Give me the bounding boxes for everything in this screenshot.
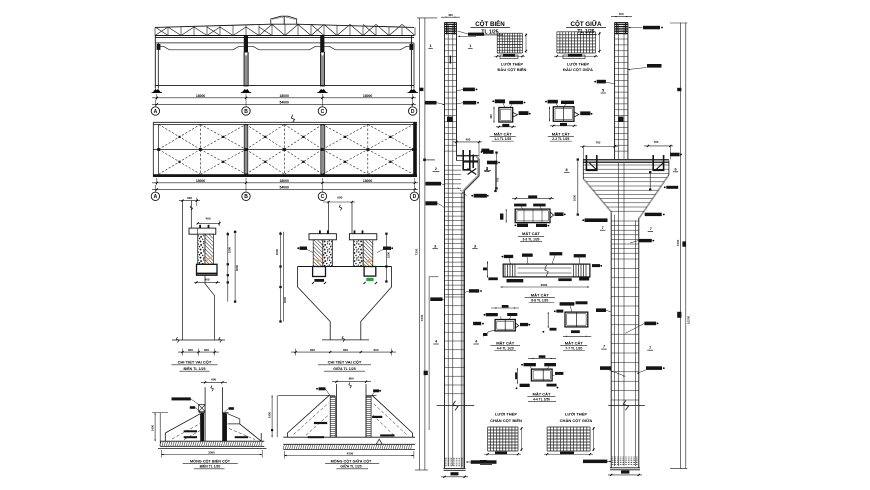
cot giua - column outline upper: [615, 23, 628, 161]
cot bien - left callout under corbel level: [426, 182, 445, 186]
svg-text:C: C: [321, 109, 325, 115]
svg-text:A: A: [154, 194, 158, 200]
mong cot bien - step rebars: [184, 430, 248, 438]
svg-text:7: 7: [601, 226, 603, 230]
mong cot giua - rebar label left top: [316, 387, 330, 396]
svg-text:400: 400: [205, 217, 210, 221]
mong cot bien - rebar label right: [225, 407, 234, 412]
cot bien - bottom dimension: [441, 472, 468, 478]
section 3-3 top dimension: [512, 195, 554, 199]
section 8-8 bottom dimension: [501, 283, 590, 287]
svg-text:1500: 1500: [228, 246, 232, 253]
svg-text:GIỮA TL 1/20: GIỮA TL 1/20: [340, 464, 361, 469]
mong cot bien - left dimension stack: [150, 413, 168, 447]
section 5 body: [531, 369, 552, 381]
mong cot bien - battered pier left slope: [165, 414, 200, 442]
section 1-1 label: [490, 131, 516, 141]
svg-text:MẶT CẮT: MẶT CẮT: [533, 391, 552, 396]
roof truss band of building elevation: [155, 24, 415, 35]
ground line of elevation: [155, 84, 414, 86]
cot giua - lower callout left2: [600, 366, 625, 377]
svg-text:MÓNG CỘT GIỮA CỘT: MÓNG CỘT GIỮA CỘT: [331, 458, 372, 463]
svg-text:MẶT CẮT: MẶT CẮT: [496, 340, 515, 345]
mong cot giua - anchor triangle: [376, 439, 382, 444]
section 8-8 left dimension: [483, 261, 498, 280]
elevation grid bubbles A B C D: [151, 100, 417, 116]
cot giua - right mid callouts: [625, 322, 658, 334]
plan mid grid line: [153, 148, 417, 150]
svg-text:2-2 TL 1/25: 2-2 TL 1/25: [552, 137, 569, 141]
cot giua - corbel anchor U bars right: [653, 155, 663, 170]
detail vai cot giua - left sub-column body: [313, 240, 332, 267]
section 5 bottom bars: [516, 384, 557, 389]
mesh luoi thep chan cot giua: [544, 427, 595, 455]
svg-text:700: 700: [654, 140, 659, 144]
svg-text:3: 3: [474, 244, 476, 248]
section 3-3 body: [515, 209, 550, 223]
plan column B: [244, 124, 248, 174]
svg-text:400: 400: [619, 12, 624, 16]
cot bien - right rebar callout 2: [457, 101, 479, 105]
section 3-3 leaders: [514, 204, 566, 227]
mong cot giua - battered pier left slope: [287, 395, 329, 437]
svg-text:600: 600: [187, 196, 192, 200]
mong cot bien - title: [183, 458, 238, 468]
svg-text:7: 7: [649, 346, 651, 350]
section 5 top dimension: [528, 355, 556, 359]
elevation dimension line 18000 x3: [152, 94, 416, 100]
mong cot bien - polystyrene filler symbol: [199, 405, 205, 412]
svg-text:CỘT BIÊN: CỘT BIÊN: [475, 20, 505, 28]
section 2-2 label: [548, 131, 574, 141]
svg-text:CHI TIẾT VAI CỘT: CHI TIẾT VAI CỘT: [328, 360, 362, 365]
label 7 right of section 7-7: [601, 345, 607, 349]
detail vai cot bien - seat dimension 400: [194, 278, 220, 284]
svg-text:D: D: [413, 194, 417, 200]
svg-text:CHÂN CỘT GIỮA: CHÂN CỘT GIỮA: [560, 418, 593, 423]
cot giua - top dimension: [611, 12, 632, 17]
section 1-1 bottom dimension: [496, 124, 516, 128]
svg-text:18000: 18000: [363, 94, 373, 98]
mong cot giua - left dimension stack: [267, 395, 277, 437]
eave beam: [155, 37, 414, 50]
svg-text:B: B: [244, 194, 248, 200]
detail vai cot giua - rebar callout left: [297, 247, 313, 253]
svg-text:ĐẦU CỘT BIÊN: ĐẦU CỘT BIÊN: [498, 67, 527, 72]
svg-text:600: 600: [373, 348, 378, 352]
section 5 left dimension: [515, 368, 518, 384]
tall column right level dimension lines: [670, 23, 691, 469]
mong cot giua - battered pier right slope: [372, 395, 412, 437]
svg-text:BIÊN TL 1/25: BIÊN TL 1/25: [184, 366, 206, 371]
cot giua - column head anchorage block: [615, 23, 628, 34]
section 7-7 top leaders: [554, 301, 588, 312]
detail vai cot bien - bottom break line: [172, 337, 225, 342]
section 4-4 leaders: [483, 313, 530, 336]
roof monitor: [271, 16, 297, 24]
svg-text:MẶT CẮT: MẶT CẮT: [494, 131, 513, 136]
section 3-3 left dimension: [500, 209, 507, 223]
detail vai cot giua - pedestal funnel outline: [298, 267, 392, 340]
svg-text:D: D: [411, 109, 415, 115]
mong cot giua - step rebars: [308, 416, 395, 438]
cot giua - right side callout 6arrow: [628, 64, 662, 70]
svg-text:LƯỚI THÉP: LƯỚI THÉP: [495, 412, 517, 417]
elevation overall dimension 54000: [152, 100, 416, 105]
label 8 left of corbel: [564, 168, 570, 172]
cot bien - corbel right dimension: [494, 161, 499, 192]
mesh luoi thep chan cot bien label: [490, 412, 522, 423]
mesh luoi thep dau cot bien: [494, 33, 527, 58]
section 7-7 body: [565, 312, 588, 327]
svg-text:1500: 1500: [386, 251, 390, 258]
cot bien - right rebar callout top: [457, 88, 478, 92]
svg-text:1-1 TL 1/25: 1-1 TL 1/25: [494, 137, 511, 141]
detail vai cot bien - hatched column body: [198, 234, 214, 264]
detail vai cot bien - bottom dimension 600 600: [178, 348, 219, 355]
cot bien - stirrup rungs lower: [445, 297, 465, 394]
svg-text:MẶT CẮT: MẶT CẮT: [522, 231, 541, 236]
cot bien - top dimension: [441, 13, 460, 18]
mong cot giua - socket rim lines: [278, 394, 376, 396]
cot bien - break mark: [437, 401, 475, 411]
cot giua - left mid callout: [596, 308, 611, 312]
svg-text:10200: 10200: [687, 315, 691, 324]
mong cot bien - top dimension 600: [201, 378, 227, 384]
cot giua - base mesh zone: [610, 457, 640, 470]
cot bien - base mesh leader: [466, 460, 497, 464]
detail vai cot bien - corbel top dimension 400: [197, 217, 221, 226]
svg-text:CHI TIẾT VAI CỘT: CHI TIẾT VAI CỘT: [178, 360, 212, 365]
detail vai cot bien - title: [172, 360, 218, 372]
cot bien - stirrup rungs mid dense: [445, 166, 465, 295]
section 2-2 left dimension: [549, 107, 550, 122]
svg-text:ĐẦU CỘT GIỮA: ĐẦU CỘT GIỮA: [563, 67, 593, 72]
svg-text:6: 6: [674, 167, 676, 171]
mong cot giua - column shaft with break: [336, 383, 366, 438]
svg-text:7-7 TL 1/20: 7-7 TL 1/20: [565, 347, 582, 351]
mong cot giua - rebar label right top: [371, 389, 381, 396]
cot giua - corbel anchor U bars left: [586, 155, 596, 170]
plan overall dimension 54000: [152, 186, 418, 191]
svg-text:8: 8: [565, 168, 567, 172]
svg-text:CỘT GIỮA: CỘT GIỮA: [571, 20, 602, 28]
svg-text:5: 5: [602, 89, 604, 93]
svg-text:600: 600: [204, 348, 209, 352]
svg-text:400: 400: [466, 138, 471, 142]
mong cot bien - bottom dimension: [161, 450, 262, 458]
section 8-8 right edge callout: [592, 264, 602, 267]
cot bien - mid leader callout left: [430, 297, 444, 301]
svg-text:18000: 18000: [196, 179, 206, 183]
cot bien - stirrup rungs upper: [445, 39, 457, 151]
detail vai cot giua - left dimension stack: [275, 232, 287, 323]
svg-text:600: 600: [211, 378, 216, 382]
cot giua - left vertical dimension: [572, 158, 579, 215]
svg-text:1: 1: [469, 44, 471, 48]
svg-text:3-3 TL 1/20: 3-3 TL 1/20: [523, 238, 540, 242]
cot giua - labels 7 lower: [647, 346, 653, 350]
left margin callout 2 with tie line: [480, 149, 498, 198]
svg-text:LƯỚI THÉP: LƯỚI THÉP: [565, 412, 587, 417]
cot bien - base mesh zone: [444, 458, 466, 470]
section 8-8 bottom leaders: [507, 278, 590, 283]
cot giua - left corbel dimension 700: [580, 141, 618, 160]
mong cot giua - base slab: [283, 437, 415, 449]
detail vai cot bien - corbel seat box: [197, 264, 218, 275]
detail vai cot bien - lower column profile: [205, 275, 215, 340]
cot bien - corbel anchor U bars: [458, 150, 479, 197]
cot bien - section mark 1-1: [428, 44, 472, 48]
cot bien - corbel gray profile: [457, 156, 480, 469]
mong cot giua - top dimension 800: [332, 377, 371, 383]
svg-text:MẶT CẮT: MẶT CẮT: [565, 340, 584, 345]
plan column C: [321, 124, 325, 174]
svg-text:1000: 1000: [572, 194, 576, 201]
svg-text:3000: 3000: [235, 264, 239, 271]
svg-text:54000: 54000: [279, 100, 289, 104]
section 2-2 leaders: [545, 100, 592, 117]
mesh luoi thep chan cot giua label: [560, 412, 593, 423]
cot giua - bottom dimension: [608, 470, 642, 476]
mong cot bien - base slab: [158, 441, 267, 448]
svg-text:B: B: [244, 109, 248, 115]
svg-text:7200: 7200: [676, 239, 680, 246]
detail vai cot giua - left stirrup box: [312, 267, 326, 285]
svg-text:CHÂN CỘT BIÊN: CHÂN CỘT BIÊN: [490, 418, 522, 423]
cot bien - corbel leader callouts: [433, 150, 500, 197]
elevation column B: [244, 36, 248, 87]
plan X bracing: [157, 124, 414, 174]
cot giua - right corbel: [640, 161, 669, 218]
mong cot bien - socket walls: [199, 413, 229, 442]
cot giua - right corbel callouts: [664, 153, 682, 189]
cot giua - lower callout: [630, 239, 654, 243]
cot giua - right corbel dimension 700: [644, 140, 673, 159]
mong cot bien - column shaft with break: [205, 386, 222, 442]
cot giua - corbel height dim bracket: [649, 171, 651, 191]
cot giua - head leader: [629, 26, 663, 30]
mong cot bien - battered pier right slope with step: [227, 414, 262, 442]
cot bien - mid leader callouts right: [465, 289, 484, 325]
cot bien - left callout lower: [426, 201, 445, 207]
tall column left level dimension lines: [415, 18, 438, 470]
svg-text:1500: 1500: [275, 248, 279, 255]
svg-text:7: 7: [603, 345, 605, 349]
mesh luoi thep chan cot bien: [484, 427, 523, 455]
section 8-8 body: [503, 264, 590, 277]
section 2-2 bottom dimension: [550, 123, 577, 127]
detail vai cot bien - top dimension 600: [179, 196, 200, 206]
detail vai cot giua - corbel top line: [298, 266, 392, 268]
svg-text:1400: 1400: [267, 411, 271, 418]
cot giua - stirrup rungs mid dense: [611, 221, 639, 253]
svg-text:2: 2: [435, 167, 437, 171]
detail vai cot giua - right dimension stack: [385, 233, 390, 283]
svg-text:600: 600: [343, 348, 348, 352]
svg-text:3000: 3000: [208, 451, 215, 455]
detail vai cot giua - title: [318, 360, 371, 372]
svg-text:600: 600: [310, 348, 315, 352]
section 4-4 label: [490, 340, 520, 350]
svg-text:7: 7: [650, 227, 652, 231]
svg-text:2: 2: [486, 166, 488, 170]
mesh 2 label: [563, 62, 593, 72]
cot giua - labels 7: [600, 226, 653, 232]
cot giua - splice mark: [618, 117, 623, 122]
svg-text:600: 600: [337, 195, 342, 199]
section 7-7 bottom dimension: [563, 330, 591, 337]
svg-text:4200: 4200: [347, 452, 354, 456]
svg-text:A: A: [154, 109, 158, 115]
cot giua - left corbel: [583, 159, 611, 211]
cot giua - lower callout right2: [637, 366, 665, 374]
cot giua - right callout with label 5: [594, 80, 614, 93]
cot bien - column head anchorage block: [445, 23, 457, 34]
column base symbols: [152, 89, 418, 93]
detail vai cot bien - column cap: [189, 225, 216, 234]
plan grid bubbles A B C D: [151, 185, 418, 201]
roof bracing plan outline: [153, 122, 417, 177]
section 1-1 left dimension: [489, 107, 495, 123]
plan dimension line 18000 x3: [152, 178, 418, 185]
cot giua - below corbel callout left: [582, 218, 607, 222]
svg-text:700: 700: [496, 177, 500, 182]
section 5 label: [527, 391, 556, 401]
svg-text:4-4 TL 1/20: 4-4 TL 1/20: [497, 347, 514, 351]
cot giua - lower column outline: [584, 176, 668, 468]
svg-text:4-4 TL 1/50: 4-4 TL 1/50: [533, 397, 550, 401]
cot giua - corbel band: [583, 159, 669, 162]
detail vai cot giua - left cap: [309, 230, 336, 239]
cot bien - mid labels 4: [433, 340, 479, 344]
mong cot bien - polystyrene label: [172, 397, 199, 404]
mong cot giua - bottom dimension: [284, 451, 414, 459]
section 2-2 body: [553, 107, 574, 122]
detail vai cot bien - upper column edge with break: [190, 201, 192, 229]
cot giua - break mark: [608, 400, 645, 410]
cot bien - level tick at corbel top: [423, 159, 435, 162]
detail vai cot bien - right dimension stack: [227, 231, 239, 303]
detail vai cot giua - rebar callout right: [377, 247, 393, 253]
cot giua - base mesh leader: [583, 460, 611, 464]
svg-text:400: 400: [448, 13, 453, 17]
svg-text:1400: 1400: [150, 424, 154, 431]
mong cot giua - title: [325, 458, 379, 468]
detail vai cot giua - right cap: [349, 230, 376, 239]
mesh 1 label: [498, 62, 527, 72]
cot bien - title with leader: [458, 20, 511, 37]
mong cot bien - rebar label left: [190, 406, 201, 412]
section 4-4 body: [495, 320, 515, 331]
svg-text:800: 800: [349, 377, 354, 381]
svg-text:3: 3: [434, 244, 436, 248]
svg-text:54000: 54000: [279, 186, 289, 190]
svg-text:C: C: [321, 194, 325, 200]
section 1-1 body: [499, 108, 513, 123]
svg-text:18000: 18000: [279, 94, 289, 98]
svg-text:18000: 18000: [363, 179, 373, 183]
svg-text:BIÊN TL 1/20: BIÊN TL 1/20: [200, 464, 221, 469]
cot giua - stirrup rungs upper: [615, 39, 628, 151]
mong cot giua - socket walls with ladder hatch: [330, 396, 371, 437]
cot giua title: [566, 20, 606, 35]
detail vai cot giua - right stirrup box and green bar: [363, 267, 377, 285]
cot giua - longitudinal rebars: [619, 24, 625, 466]
bottom left tick marks: [480, 460, 492, 465]
svg-text:MÓNG CỘT BIÊN CỘT: MÓNG CỘT BIÊN CỘT: [190, 458, 231, 463]
svg-text:1: 1: [429, 44, 431, 48]
elevation column C: [320, 36, 324, 87]
section 7-7 left dimension: [543, 312, 557, 333]
plan break mark: [291, 115, 294, 123]
detail vai cot giua - bottom break line: [322, 336, 369, 342]
section 3-3 label: [518, 231, 544, 242]
svg-text:400: 400: [489, 114, 493, 119]
section 5 leaders: [521, 363, 556, 369]
cot giua - stirrup rungs lower: [611, 259, 639, 400]
svg-text:18000: 18000: [279, 179, 289, 183]
section 4-4 top dimension: [491, 305, 519, 309]
elevation column A: [155, 36, 158, 89]
section 8-8 label: [525, 292, 555, 302]
cot bien - column outline upper: [445, 23, 457, 469]
cot giua - below corbel callout right: [645, 213, 665, 216]
svg-text:8-8 TL 1/20: 8-8 TL 1/20: [531, 298, 548, 302]
mesh luoi thep dau cot giua: [554, 32, 601, 59]
svg-text:18000: 18000: [196, 94, 206, 98]
cot bien - splice marks: [447, 56, 452, 122]
section 8-8 top leaders: [502, 252, 586, 264]
section 5 right leader: [552, 372, 563, 389]
svg-text:700: 700: [596, 141, 601, 145]
detail vai cot giua - upper column with break: [329, 202, 353, 234]
cot bien - longitudinal rebars: [448, 24, 453, 466]
svg-text:MẶT CẮT: MẶT CẮT: [552, 131, 571, 136]
cot bien - left rebar callout: [425, 101, 445, 105]
svg-text:GIỮA TL 1/25: GIỮA TL 1/25: [333, 366, 356, 371]
section 7-7 label: [560, 340, 587, 350]
detail vai cot giua - right sub-column body: [354, 240, 373, 267]
elevation column D: [411, 36, 414, 89]
detail vai cot giua - top dimension 600: [323, 195, 355, 203]
svg-text:600: 600: [188, 348, 193, 352]
section 1-1 leaders: [492, 99, 530, 117]
detail vai cot giua - bottom dimension 600 600 600: [291, 348, 396, 355]
svg-text:MẶT CẮT: MẶT CẮT: [531, 292, 550, 297]
svg-text:3000: 3000: [283, 296, 287, 303]
detail vai cot bien - column left edge line: [182, 201, 184, 340]
svg-text:6600: 6600: [541, 283, 548, 287]
cot giua - corbel region stirrups: [583, 165, 669, 211]
cot bien - corbel dimension 400: [453, 138, 482, 157]
svg-text:7200: 7200: [415, 248, 419, 255]
svg-text:7200: 7200: [420, 314, 424, 321]
tall column left inner bracket line: [429, 277, 438, 430]
cot bien - mid labels 3: [432, 244, 477, 248]
